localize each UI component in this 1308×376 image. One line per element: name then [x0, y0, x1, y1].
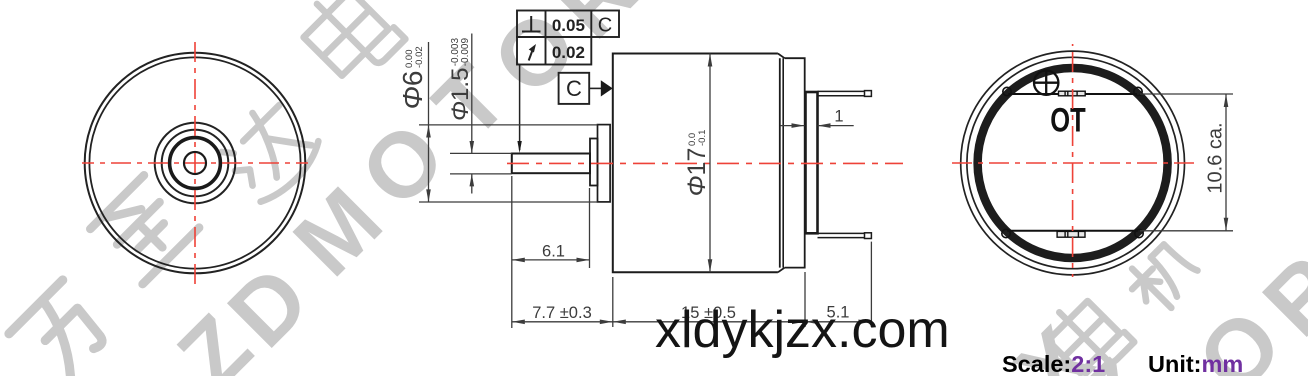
datum leader — [589, 87, 604, 89]
svg-text:xldykjzx.com: xldykjzx.com — [655, 301, 950, 359]
phi6 extension lines — [419, 125, 598, 202]
svg-text:-0.009: -0.009 — [460, 38, 471, 67]
tolerance frame row2 — [517, 37, 591, 65]
rear cap outline — [785, 58, 805, 267]
1 dimension line — [781, 125, 854, 127]
svg-text:Φ6: Φ6 — [397, 70, 428, 109]
7.7 dimension line — [512, 321, 613, 323]
datum triangle — [601, 80, 613, 96]
right view red centerline horizontal — [948, 162, 1197, 164]
body right edge — [779, 58, 781, 267]
6.1 extension lines — [512, 176, 590, 328]
body chamfer top — [778, 54, 785, 59]
svg-text:10.6 ca.: 10.6 ca. — [1205, 122, 1227, 193]
svg-text:Φ17: Φ17 — [683, 148, 711, 197]
watermark char dian top — [294, 0, 406, 89]
rear cap seam — [782, 58, 784, 267]
top terminal block — [1059, 91, 1086, 96]
svg-text:-0.1: -0.1 — [697, 130, 708, 146]
svg-text:C: C — [566, 76, 582, 101]
right view red centerline vertical — [1072, 44, 1074, 277]
front collar — [598, 125, 611, 202]
10.6 dimension line — [1225, 94, 1227, 231]
svg-text:Scale:2:1: Scale:2:1 — [1002, 351, 1105, 376]
svg-text:0.02: 0.02 — [552, 43, 585, 62]
svg-text:0.05: 0.05 — [552, 16, 585, 35]
red centerline middle — [505, 162, 903, 164]
phi17 dimension line — [709, 54, 711, 273]
label phi6 — [397, 46, 428, 109]
bushing boss — [590, 139, 598, 186]
5.1 dimension line — [805, 321, 871, 323]
bottom terminal end cap — [865, 233, 872, 239]
6.1 dimension line — [512, 259, 590, 261]
svg-text:OT: OT — [1050, 102, 1086, 139]
hook top left — [1003, 87, 1011, 95]
runout symbol — [529, 48, 534, 61]
left view outer circle — [85, 53, 306, 274]
svg-text:-0.02: -0.02 — [414, 46, 425, 68]
label phi1.5 — [447, 38, 474, 122]
label phi17 — [683, 130, 711, 197]
top terminal end cap — [865, 91, 872, 97]
right view outer circle — [961, 51, 1185, 275]
watermark char wan — [9, 280, 118, 376]
svg-text:1: 1 — [834, 108, 843, 126]
bottom extension lines — [613, 242, 872, 327]
10.6 extension lines — [1140, 94, 1233, 231]
hook top right — [1134, 87, 1142, 95]
target symbol — [1034, 71, 1058, 95]
runout leader to shaft — [519, 65, 521, 151]
terminal plate — [806, 92, 818, 233]
svg-text:7.7 ±0.3: 7.7 ±0.3 — [532, 304, 592, 322]
right view can ring thick — [978, 68, 1168, 258]
watermark char da — [212, 94, 326, 208]
phi1.5 extension lines — [450, 153, 512, 174]
bottom chord flat — [1007, 230, 1138, 232]
top terminal strip — [818, 91, 865, 95]
left view shaft circle — [184, 152, 206, 174]
perpendicularity symbol — [522, 16, 541, 32]
bottom terminal strip — [818, 233, 865, 237]
svg-text:Φ1.5: Φ1.5 — [447, 68, 474, 121]
watermark char dian right — [1040, 290, 1135, 376]
left view red centerline vertical — [194, 41, 196, 285]
hook bottom left — [1002, 229, 1010, 237]
shaft — [512, 154, 590, 174]
body chamfer bottom — [778, 268, 785, 273]
watermark char ji right — [1122, 237, 1203, 318]
phi1.5 dimension line — [471, 34, 473, 194]
left view red centerline horizontal — [82, 162, 308, 164]
top chord flat — [1008, 93, 1137, 95]
right view second circle — [967, 57, 1178, 268]
hook bottom right — [1135, 229, 1143, 237]
svg-text:C: C — [598, 15, 612, 37]
svg-text:6.1: 6.1 — [542, 243, 565, 261]
motor body outline — [613, 54, 778, 273]
svg-text:Unit:mm: Unit:mm — [1148, 351, 1243, 376]
tolerance frame row1 — [517, 11, 619, 38]
bottom terminal block — [1057, 231, 1085, 237]
left view collar circle — [155, 123, 236, 204]
15 dimension line — [613, 321, 805, 323]
left view hub circle — [162, 130, 229, 197]
left view inner rim circle — [89, 57, 300, 268]
datum C box — [559, 73, 590, 104]
phi6 dimension line — [428, 42, 430, 202]
watermark char zhi — [89, 174, 199, 284]
left view bushing circle thick — [170, 138, 221, 189]
